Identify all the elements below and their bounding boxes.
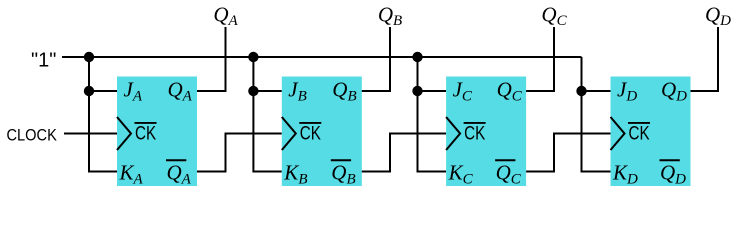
wire: Q_B output up to node Q_B: [362, 27, 390, 91]
wire: Q_A output up to node Q_A: [197, 27, 226, 91]
junction: branch C / J_C stub: [412, 86, 422, 96]
pin label Q-bar_D output: [660, 159, 680, 161]
JK flip-flop U4 (D stage) body: [611, 77, 691, 187]
clock edge-triangle of U3: [446, 117, 460, 150]
JK flip-flop U2 (B stage) body: [282, 77, 362, 187]
wire: logic-1 rail from "1" label across top: [62, 56, 582, 58]
svg-text:CK: CK: [300, 122, 322, 144]
wire: net-1 branch down to J_D and K_D: [582, 57, 611, 172]
svg-text:CK: CK: [135, 122, 157, 144]
pin label CK-bar of U3: [464, 122, 486, 124]
wire: Q-bar_C output to CK_D clock input: [526, 134, 610, 172]
wire: stub into J_C input: [418, 90, 447, 92]
junction: net-1 rail / branch C: [412, 52, 422, 62]
pin label Q-bar_C output: [495, 159, 515, 161]
wire: net-1 branch down to J_C and K_C: [418, 57, 447, 172]
pin label Q-bar_A output: [166, 159, 186, 161]
pin label CK-bar of U2: [299, 122, 321, 124]
wire: net-1 branch down to J_A and K_A: [89, 57, 117, 172]
pin label CK-bar of U4: [628, 122, 650, 124]
JK flip-flop U1 (A stage) body: [117, 77, 197, 187]
clock edge-triangle of U1: [117, 117, 131, 150]
wire: Q-bar_A output to CK_B clock input: [197, 134, 282, 172]
junction: branch D / J_D stub: [576, 86, 586, 96]
clock edge-triangle of U4: [611, 117, 625, 150]
svg-text:CK: CK: [464, 122, 486, 144]
junction: branch A / J_A stub: [84, 86, 94, 96]
JK flip-flop U3 (C stage) body: [446, 77, 526, 187]
svg-text:CLOCK: CLOCK: [7, 127, 58, 145]
wire: CLOCK to CK_A clock input: [64, 133, 117, 135]
pin label CK-bar of U1: [135, 122, 157, 124]
svg-text:"1": "1": [31, 50, 56, 72]
wire: Q_C output up to node Q_C: [526, 27, 554, 91]
wire: stub into J_A input: [89, 90, 117, 92]
wire: Q_D output up to node Q_D: [691, 27, 719, 91]
junction: net-1 rail / branch B: [248, 52, 258, 62]
label CLOCK input: [7, 127, 58, 145]
wire: Q-bar_B output to CK_C clock input: [362, 134, 446, 172]
wire: net-1 branch down to J_B and K_B: [253, 57, 281, 172]
junction: branch B / J_B stub: [248, 86, 258, 96]
svg-text:CK: CK: [629, 122, 651, 144]
clock edge-triangle of U2: [282, 117, 296, 150]
junction: net-1 rail / branch A: [84, 52, 94, 62]
pin label Q-bar_B output: [331, 159, 351, 161]
wire: stub into J_B input: [253, 90, 281, 92]
wire: stub into J_D input: [582, 90, 611, 92]
